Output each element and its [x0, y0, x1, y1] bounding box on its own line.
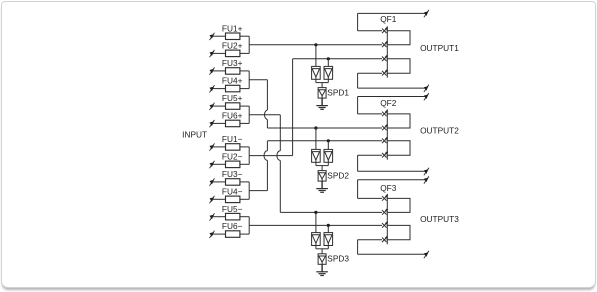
wire QF3 poles 1-2 right bracket — [387, 198, 410, 212]
wire fuse FU1+ to pair bracket — [240, 35, 249, 37]
svg-text:FU2+: FU2+ — [222, 41, 243, 51]
wire QF1 poles 3-4 right bracket — [387, 59, 410, 73]
wire fuse FU1− to pair bracket — [240, 146, 249, 148]
wire fuse FU5+ to pair bracket — [240, 105, 249, 107]
circuit breaker QF2 contacts — [382, 111, 388, 158]
wire fuse FU6− to pair bracket — [240, 233, 249, 235]
wire output2+ line — [358, 97, 428, 114]
wire vertical B (to QF3 pole2) with hop — [277, 115, 280, 213]
wire QF1 poles 1-2 right bracket — [387, 31, 410, 45]
wire bus3- (FU5-/FU6- to QF3 pole3) — [249, 224, 382, 226]
pair join bracket FU5-/FU6- — [248, 217, 250, 234]
svg-text:FU2−: FU2− — [222, 151, 243, 161]
wire bus1- (to QF1 pole3) — [293, 58, 382, 60]
surge arrester SPD3 left element — [312, 233, 321, 246]
pair join bracket FU1-/FU2- — [248, 147, 250, 164]
wire bus2+ (to QF2 pole2) — [267, 127, 382, 129]
svg-text:OUTPUT1: OUTPUT1 — [420, 43, 459, 53]
surge arrester SPD1 left element — [312, 66, 321, 79]
output3- terminal arrow — [424, 251, 429, 258]
wire terminal to fuse FU1− — [213, 146, 226, 148]
circuit breaker QF3 linkage — [386, 194, 388, 244]
fuse FU1− — [222, 134, 243, 150]
wire terminal to fuse FU2− — [213, 163, 226, 165]
svg-text:OUTPUT2: OUTPUT2 — [420, 125, 459, 135]
wire QF3 pole4 left — [358, 239, 382, 241]
wire fuse FU2+ to pair bracket — [240, 52, 249, 54]
wire fuse FU4− to pair bracket — [240, 198, 249, 200]
wire output1- line — [358, 73, 428, 88]
wire terminal to fuse FU5− — [213, 216, 226, 218]
wire SPD2 ground lead — [321, 181, 323, 189]
input terminal arrow for FU3+ — [210, 67, 215, 74]
wire output3- line — [358, 240, 428, 255]
circuit breaker QF1 contacts — [382, 27, 388, 75]
input terminal arrow for FU6+ — [210, 120, 215, 127]
node OUTPUT3 label — [420, 214, 459, 224]
wire FU3-/FU4- out to vertical — [249, 190, 267, 192]
output3+ terminal arrow — [424, 176, 429, 183]
svg-text:SPD2: SPD2 — [327, 170, 349, 180]
surge arrester SPD1 series element — [318, 87, 349, 98]
input terminal arrow for FU5+ — [210, 103, 215, 110]
svg-text:FU5−: FU5− — [222, 204, 243, 214]
pair join bracket FU3+/FU4+ — [248, 71, 250, 89]
wire fuse FU4+ to pair bracket — [240, 88, 249, 90]
fuse FU4− — [222, 186, 243, 202]
circuit breaker QF2 linkage — [386, 109, 388, 159]
wire terminal to fuse FU4+ — [213, 88, 226, 90]
junction dot SPD2 - bus — [327, 139, 330, 142]
wire SPD1 right branch lead — [327, 59, 329, 67]
wire terminal to fuse FU3− — [213, 181, 226, 183]
wire bus1+ (FU1+/FU2+ to QF1 pole2) — [249, 44, 382, 46]
svg-text:FU6+: FU6+ — [222, 111, 243, 121]
wire fuse FU3− to pair bracket — [240, 181, 249, 183]
wire terminal to fuse FU6+ — [213, 122, 226, 124]
pair join bracket FU1+/FU2+ — [248, 36, 250, 53]
wire terminal to fuse FU5+ — [213, 105, 226, 107]
circuit breaker QF1 linkage — [386, 26, 388, 77]
wire terminal to fuse FU1+ — [213, 35, 226, 37]
fuse FU6− — [222, 221, 243, 237]
svg-text:FU4−: FU4− — [222, 186, 243, 196]
wire QF1 pole1 left — [358, 30, 382, 32]
svg-text:FU3+: FU3+ — [222, 58, 243, 68]
svg-text:FU6−: FU6− — [222, 221, 243, 231]
circuit breaker QF1 label — [380, 14, 397, 24]
pair join bracket FU5+/FU6+ — [248, 106, 250, 123]
fuse FU5− — [222, 204, 243, 220]
wire QF2 pole4 left — [358, 154, 382, 156]
node OUTPUT1 label — [420, 43, 459, 53]
input terminal arrow for FU1− — [210, 143, 215, 150]
fuse FU3− — [222, 169, 243, 185]
input terminal arrow for FU2+ — [210, 50, 215, 57]
svg-text:OUTPUT3: OUTPUT3 — [420, 214, 459, 224]
surge arrester SPD3 series element — [318, 254, 349, 265]
input terminal arrow for FU3− — [210, 178, 215, 185]
svg-text:QF3: QF3 — [380, 183, 397, 193]
wire SPD3 right branch lead — [327, 225, 329, 232]
node OUTPUT2 label — [420, 125, 459, 135]
node INPUT label — [182, 129, 207, 139]
wire terminal to fuse FU3+ — [213, 70, 226, 72]
circuit breaker QF2 label — [380, 98, 397, 108]
svg-text:QF1: QF1 — [380, 14, 397, 24]
wire bus3+ (to QF3 pole2) — [280, 211, 382, 213]
wire fuse FU3+ to pair bracket — [240, 70, 249, 72]
wire vertical A (to QF2 pole2) with hop — [264, 80, 267, 128]
wire SPD2 join bar — [316, 162, 328, 170]
fuse FU2+ — [222, 41, 243, 57]
svg-text:INPUT: INPUT — [182, 129, 207, 139]
wire FU3+/FU4+ out to vertical — [249, 79, 267, 81]
wire SPD1 join bar — [316, 79, 328, 87]
wire FU1-/FU2- out to vertical — [249, 155, 292, 157]
circuit breaker QF3 label — [380, 183, 397, 193]
wire QF3 poles 3-4 right bracket — [387, 225, 410, 239]
fuse FU1+ — [222, 23, 243, 39]
junction dot SPD3 + bus — [314, 211, 317, 214]
wire terminal to fuse FU4− — [213, 198, 226, 200]
fuse FU4+ — [222, 76, 243, 92]
wire QF2 poles 1-2 right bracket — [387, 114, 410, 128]
wire terminal to fuse FU6− — [213, 233, 226, 235]
output1+ terminal arrow — [424, 10, 429, 17]
wire QF2 poles 3-4 right bracket — [387, 141, 410, 155]
surge arrester SPD3 right element — [324, 233, 333, 246]
wire SPD3 left branch lead — [315, 212, 317, 232]
junction dot SPD3 - bus — [327, 224, 330, 227]
wire SPD1 ground lead — [321, 98, 323, 106]
wire fuse FU5− to pair bracket — [240, 216, 249, 218]
wire output2- line — [358, 155, 428, 171]
wire SPD2 left branch lead — [315, 128, 317, 149]
svg-text:SPD1: SPD1 — [327, 87, 349, 97]
input terminal arrow for FU4− — [210, 196, 215, 203]
wire SPD2 right branch lead — [327, 141, 329, 150]
wire output1+ line — [358, 13, 428, 30]
fuse FU6+ — [222, 111, 243, 127]
wire bus2- (to QF2 pole3) — [267, 140, 382, 142]
wire vertical C (to QF1 pole3) — [292, 59, 294, 156]
input terminal arrow for FU1+ — [210, 33, 215, 40]
wire SPD3 join bar — [316, 246, 328, 254]
wire fuse FU2− to pair bracket — [240, 163, 249, 165]
fuse FU2− — [222, 151, 243, 167]
wire fuse FU6+ to pair bracket — [240, 122, 249, 124]
surge arrester SPD2 left element — [312, 149, 321, 162]
svg-text:QF2: QF2 — [380, 98, 397, 108]
svg-text:FU3−: FU3− — [222, 169, 243, 179]
pair join bracket FU3-/FU4- — [248, 182, 250, 199]
wire SPD1 left branch lead — [315, 45, 317, 67]
input terminal arrow for FU4+ — [210, 85, 215, 92]
output2- terminal arrow — [424, 168, 429, 175]
ground symbol SPD1 — [316, 106, 328, 110]
input terminal arrow for FU2− — [210, 161, 215, 168]
ground symbol SPD2 — [316, 189, 328, 193]
svg-text:SPD3: SPD3 — [327, 254, 349, 264]
junction dot SPD1 + bus — [314, 43, 317, 46]
svg-text:FU1−: FU1− — [222, 134, 243, 144]
fuse FU3+ — [222, 58, 243, 74]
svg-text:FU5+: FU5+ — [222, 93, 243, 103]
wire QF3 pole1 left — [358, 197, 382, 199]
junction dot SPD1 - bus — [327, 57, 330, 60]
input terminal arrow for FU5− — [210, 213, 215, 220]
output1- terminal arrow — [424, 85, 429, 92]
svg-text:FU4+: FU4+ — [222, 76, 243, 86]
surge arrester SPD1 right element — [324, 66, 333, 79]
input terminal arrow for FU6− — [210, 231, 215, 238]
wire vertical D (to QF2 pole3) with hop — [264, 141, 267, 191]
output2+ terminal arrow — [424, 93, 429, 100]
wire QF1 pole4 left — [358, 72, 382, 74]
svg-text:FU1+: FU1+ — [222, 23, 243, 33]
wire output3+ line — [358, 180, 428, 199]
wire QF2 pole1 left — [358, 113, 382, 115]
fuse FU5+ — [222, 93, 243, 109]
wire FU5+/FU6+ out to vertical — [249, 114, 280, 116]
surge arrester SPD2 right element — [324, 149, 333, 162]
junction dot SPD2 + bus — [314, 126, 317, 129]
ground symbol SPD3 — [316, 272, 328, 276]
surge arrester SPD2 series element — [318, 170, 349, 181]
wire terminal to fuse FU2+ — [213, 52, 226, 54]
wire SPD3 ground lead — [321, 264, 323, 272]
circuit breaker QF3 contacts — [382, 195, 388, 242]
